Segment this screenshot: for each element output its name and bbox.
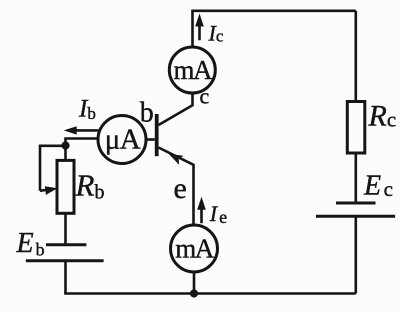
arrowhead Ie <box>197 197 206 210</box>
wire: uA meter left to corner <box>66 139 98 146</box>
svg-text:μA: μA <box>105 123 141 155</box>
wire: junction dot to Rb top <box>64 146 67 161</box>
svg-text:mA: mA <box>175 234 215 264</box>
wire: collector lead (diagonal up to meter) <box>159 95 193 126</box>
wire: base lead from uA meter to bar <box>147 138 155 141</box>
svg-text:mA: mA <box>174 55 214 85</box>
arrow Ib <box>76 129 98 132</box>
ammeter mA (emitter) <box>171 225 218 272</box>
wire: Rb to Eb <box>64 213 67 244</box>
junction dot: base node at Rb top <box>61 141 69 149</box>
wire: emitter lead (diagonal from transistor, down to meter) <box>159 148 194 226</box>
svg-text:Rb: Rb <box>75 168 105 204</box>
ammeter mA (collector) <box>169 47 215 93</box>
svg-text:Eb: Eb <box>16 228 45 260</box>
wire: top rail from collector branch to right rail <box>193 11 356 47</box>
wire: Eb to bottom rail <box>64 261 67 294</box>
battery Eb short plate <box>46 243 86 246</box>
wire: right rail upper segment <box>354 11 357 102</box>
resistor Rc <box>347 102 365 154</box>
arrowhead Ib <box>64 126 77 134</box>
svg-text:Ib: Ib <box>78 96 96 124</box>
battery Ec long plate <box>316 215 395 218</box>
arrowhead: emitter (points into base bar) <box>169 154 184 165</box>
battery Ec short plate <box>336 202 376 205</box>
arrow Ie <box>200 208 203 223</box>
ammeter uA (base) <box>98 116 146 164</box>
battery Eb long plate <box>26 259 104 262</box>
wire: Rc to Ec <box>354 153 357 203</box>
arrow Ic <box>198 25 201 40</box>
arrowhead: rheostat wiper into Rb <box>45 186 58 195</box>
wire: Ec to bottom rail <box>354 216 357 293</box>
svg-text:Ie: Ie <box>209 201 227 227</box>
arrowhead Ic <box>195 14 204 27</box>
resistor Rb (rheostat) <box>57 160 74 213</box>
svg-text:Ic: Ic <box>208 20 224 45</box>
rheostat wiper lead <box>40 190 49 191</box>
svg-text:Ec: Ec <box>363 171 393 202</box>
wire: emitter meter to bottom rail <box>193 271 196 294</box>
svg-text:Rc: Rc <box>368 99 397 132</box>
wire: bottom rail <box>64 292 356 295</box>
svg-text:e: e <box>174 172 187 205</box>
junction dot: emitter branch to bottom rail <box>190 289 198 297</box>
transistor base bar <box>155 114 159 156</box>
wire: rheostat loop (left and down) <box>40 146 66 191</box>
